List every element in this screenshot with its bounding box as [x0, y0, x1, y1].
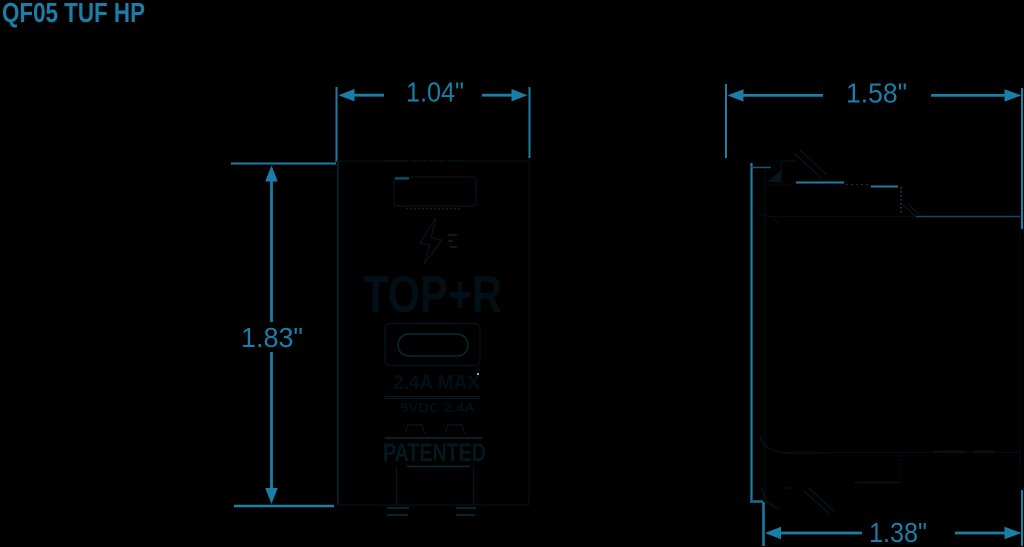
svg-text:1.38": 1.38" [869, 517, 927, 547]
front view lightning bolt icon [420, 218, 442, 264]
side view top clip vertical [780, 161, 782, 183]
side view bottom edge dotted continuation [789, 453, 830, 455]
dimension 1.58in left extension line [725, 84, 727, 158]
side view top fillet arc [758, 214, 782, 226]
front view recess rectangle [394, 177, 476, 206]
dimension 1.83in top extension line [231, 163, 336, 165]
dimension 1.58in left arrow [728, 89, 744, 101]
svg-text:TOP+R: TOP+R [363, 266, 502, 324]
front view short rule [407, 466, 470, 468]
dimension 1.83in bottom extension line [234, 505, 334, 508]
dimension 1.83in up arrow [265, 166, 278, 182]
dimension 1.04in left extension line [336, 87, 338, 162]
front view top edge dashes [385, 160, 462, 162]
side view bottom inner horizontal [854, 482, 901, 484]
front view double rule [385, 396, 480, 398]
side view top bright segment 2 [871, 186, 898, 188]
dimension 1.38in left arrow [765, 527, 781, 539]
front view lower right vertical [473, 466, 475, 505]
side view flange top edge [751, 167, 771, 169]
front view bright pixel dot [477, 373, 479, 375]
dimension 1.38in right arrow [1005, 527, 1022, 539]
front view outer outline [338, 161, 530, 505]
side view front face line [750, 163, 752, 500]
dimension 1.04in left arrow [339, 89, 355, 101]
front view tab left [405, 425, 425, 434]
front view bolt side dashes [448, 234, 457, 236]
side view bottom clip horizontal [781, 487, 794, 489]
svg-text:1.83": 1.83" [241, 322, 303, 353]
side view top bright segment 1 [796, 182, 844, 184]
front view tab right [445, 425, 465, 434]
side view bottom dotted vertical [899, 455, 901, 483]
dimension 1.38in left extension line [762, 502, 765, 546]
side view bottom fillet arc [760, 435, 788, 453]
svg-text:5VDC 2.4A: 5VDC 2.4A [400, 400, 476, 415]
dimension 1.04in right extension line [529, 87, 531, 158]
side view top clip triangle [767, 170, 781, 182]
front view long rule [385, 437, 482, 439]
side view body top edge dark part [765, 216, 916, 218]
side view bottom clip diagonal pair [804, 491, 830, 515]
front view lower rounded rectangle [385, 324, 480, 366]
svg-text:PATENTED: PATENTED [383, 439, 486, 467]
dimension 1.58in right extension line [1021, 88, 1023, 229]
front view left foot [387, 507, 409, 509]
front view left edge (faintly visible) [337, 161, 339, 505]
front view lower left vertical [396, 466, 398, 505]
dimension 1.38in right extension line [1021, 490, 1023, 546]
side view body top edge bright part [916, 216, 1020, 218]
svg-text:2.4A MAX: 2.4A MAX [393, 372, 481, 394]
svg-text:QF05 TUF HP: QF05 TUF HP [2, 0, 145, 28]
front view recess dotted bottom line [406, 208, 460, 210]
side view top clip diagonal pair [795, 154, 822, 179]
front view right foot [456, 507, 476, 509]
dimension 1.83in down arrow [265, 488, 278, 504]
dimension 1.04in right arrow [512, 89, 528, 101]
side view top clip horizontal [781, 160, 796, 162]
side view bottom clip curve [761, 487, 779, 509]
side view flange bottom edge [750, 500, 763, 503]
side view hatch near top right step [903, 205, 915, 216]
dimension 1.58in right arrow [1005, 89, 1022, 101]
svg-text:1.58": 1.58" [846, 78, 907, 109]
svg-text:1.04": 1.04" [406, 77, 464, 108]
side view body right edge [1019, 229, 1021, 490]
side view body bottom edge [788, 452, 1020, 454]
front view stadium opening [398, 334, 468, 356]
side view dotted vertical [900, 187, 902, 213]
side view top dotted joiner [846, 184, 869, 186]
side view top clip dotted line [765, 184, 792, 186]
side view bottom right dashes [934, 451, 965, 453]
front view recess top-left bright dash [395, 178, 409, 180]
side view flange back edge [764, 168, 766, 500]
